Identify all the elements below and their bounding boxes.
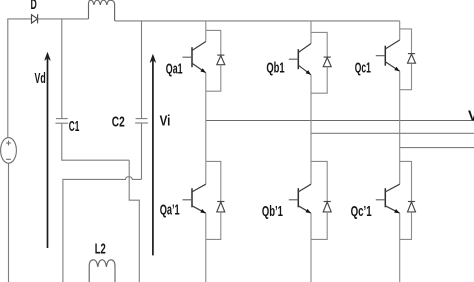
- diode Qc1 antiparallel: [408, 54, 416, 64]
- diode Qb1 antiparallel: [323, 57, 331, 67]
- wire Qb&#x2019;1 diode branch bottom: [311, 212, 327, 240]
- inductor L1: [89, 0, 115, 21]
- svg-text:Vd: Vd: [35, 71, 46, 87]
- wire Qc1 diode branch bottom: [400, 63, 412, 89]
- diode Qa&#x2019;1 antiparallel: [217, 202, 225, 212]
- wire Qa&#x2019;1 diode branch bottom: [206, 212, 221, 240]
- transistor Qb1: [289, 44, 311, 75]
- wire Qb&#x2019;1 collector leg: [310, 161, 312, 184]
- output line phase-C: [400, 147, 474, 149]
- wire Qc1 collector leg: [399, 21, 401, 40]
- wire Qb1 collector leg: [310, 21, 312, 44]
- svg-text:Qa1: Qa1: [166, 62, 183, 78]
- svg-text:Qa’1: Qa’1: [160, 202, 180, 218]
- wire Qb1 emitter leg: [310, 75, 312, 162]
- svg-text:Vi: Vi: [160, 114, 171, 130]
- wire Qb1 diode branch top: [311, 32, 327, 57]
- transistor Qa1: [183, 42, 206, 73]
- svg-text:C2: C2: [112, 114, 125, 130]
- diode D: [32, 14, 38, 23]
- capacitor C2: [135, 21, 148, 180]
- arrow Vd: [45, 53, 51, 248]
- transistor Qb&#x2019;1: [289, 184, 311, 213]
- wire Qc1 emitter leg: [399, 71, 401, 161]
- wire Qa1 diode branch bottom: [206, 65, 221, 92]
- wire Qb&#x2019;1 diode branch top: [311, 161, 327, 201]
- inductor L2: [89, 260, 115, 282]
- arrow Vi: [150, 55, 156, 256]
- svg-text:V: V: [468, 109, 474, 125]
- svg-text:D: D: [31, 0, 37, 13]
- capacitor C1: [55, 19, 129, 160]
- svg-text:Qc1: Qc1: [355, 60, 371, 76]
- svg-text:Qc’1: Qc’1: [351, 204, 372, 220]
- svg-text:Qb1: Qb1: [266, 61, 284, 77]
- transistor Qc1: [376, 40, 400, 71]
- svg-text:C1: C1: [69, 119, 80, 135]
- wire Qc&#x2019;1 diode branch bottom: [400, 212, 412, 240]
- transistor Qa&#x2019;1: [183, 184, 206, 213]
- wire Qa&#x2019;1 diode branch top: [206, 161, 221, 201]
- wire C1-bottom jog to bottom edge: [129, 160, 139, 282]
- wire source to bottom: [8, 163, 10, 282]
- source V1: [1, 138, 17, 164]
- wire Qa&#x2019;1 emitter leg: [205, 213, 207, 282]
- diode Qb&#x2019;1 antiparallel: [323, 202, 331, 212]
- wire rail inductor to leg C: [115, 20, 400, 22]
- wire Qa1 emitter leg: [205, 73, 207, 162]
- wire Qb&#x2019;1 emitter leg: [310, 213, 312, 282]
- wire Qb1 diode branch bottom: [311, 67, 327, 94]
- wire Qc&#x2019;1 collector leg: [399, 161, 401, 184]
- wire Qa&#x2019;1 collector leg: [205, 161, 207, 184]
- output line W phase-A: [206, 120, 474, 122]
- wire Qa1 diode branch top: [206, 30, 221, 55]
- wire Qa1 collector leg: [205, 21, 207, 42]
- diode Qc&#x2019;1 antiparallel: [408, 202, 416, 212]
- wire Qc&#x2019;1 emitter leg: [399, 213, 401, 282]
- output line phase-B: [311, 132, 474, 134]
- wire rail diode to inductor: [38, 18, 89, 20]
- svg-text:Qb’1: Qb’1: [262, 204, 283, 220]
- wire Qc&#x2019;1 diode branch top: [400, 161, 412, 201]
- wire negative return with hop: [63, 177, 142, 282]
- wire Qc1 diode branch top: [400, 29, 412, 54]
- svg-text:L2: L2: [95, 241, 106, 257]
- transistor Qc&#x2019;1: [376, 184, 400, 213]
- wire top-left rail segment: [8, 19, 32, 138]
- diode Qa1 antiparallel: [217, 55, 225, 65]
